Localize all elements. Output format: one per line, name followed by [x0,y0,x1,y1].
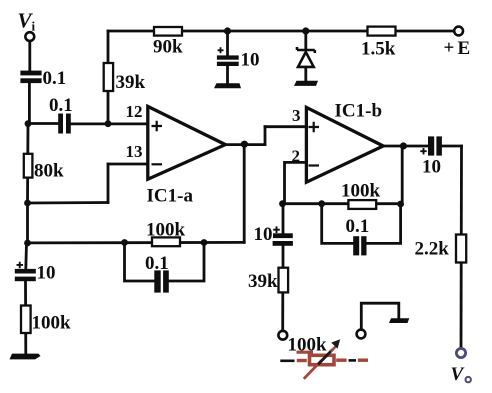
wire zener branch [304,31,307,50]
label 1.5k [361,38,396,59]
wire top cap to ground [226,66,229,83]
label 39k chain [248,271,278,292]
wire C9 to right rail [442,145,462,148]
wire step up [264,127,267,145]
label 0.1 a feedback [145,253,169,274]
label 100k a feedback [146,219,186,240]
label IC1-a [147,186,194,207]
wire left rail 80k section [26,124,29,204]
wire Vi to C1 [28,41,31,71]
svg-text:13: 13 [126,142,143,161]
label 10 top [241,49,260,70]
svg-text:i: i [32,19,36,34]
capacitor 10 output electrolytic [420,136,442,155]
potentiometer RP 100k [280,339,368,379]
wire pin 2 [285,162,307,203]
wire C7 to 39k [282,246,285,268]
wire opamp b output right [383,145,428,148]
resistor 100k b feedback body [348,200,376,209]
wire top cap branch [226,31,229,55]
capacitor 0.1 b feedback [353,236,366,255]
resistor 100k left body [21,306,31,334]
svg-text:2.2k: 2.2k [415,239,450,260]
label 39k top [116,72,146,93]
ground right mid [389,318,409,323]
svg-text:0.1: 0.1 [346,216,370,237]
label plus b [309,122,320,133]
svg-text:39k: 39k [248,271,278,292]
label 10 output [422,156,441,177]
wire input node horizontal to C2 [28,122,58,125]
capacitor 10 chain electrolytic [273,226,293,245]
wire C1 to input node [28,83,31,124]
label 10 left [37,263,56,284]
wire output down [243,145,246,243]
svg-text:10: 10 [254,224,273,245]
resistor 2.2k body [456,235,466,263]
wire pin13 vertical [107,164,110,203]
node terminal left [278,331,287,340]
svg-text:100k: 100k [146,219,186,240]
wire feedback line y242 [28,241,245,244]
svg-text:1.5k: 1.5k [361,38,396,59]
wire left rail mid [26,203,29,243]
resistor 39k top body [104,63,113,91]
label 2.2k [415,239,450,260]
node Vi terminal [25,32,34,41]
svg-text:100k: 100k [288,334,328,355]
wire 39k branch vertical [107,31,110,124]
svg-text:10: 10 [37,263,56,284]
label Vo [451,364,471,385]
svg-text:100k: 100k [341,181,381,202]
node +E terminal [454,27,463,36]
wire 39k to terminal [281,292,284,330]
ground left bottom [10,354,41,360]
svg-text:10: 10 [241,49,260,70]
diode D1 zener [297,47,315,67]
label pin 2 [292,146,301,165]
resistor 80k body [24,154,33,178]
capacitor 10 top electrolytic [217,47,239,66]
label pin 13 [126,142,143,161]
label 80k [34,160,64,181]
wire C2 to pin 12 [71,123,148,126]
label 10 chain [254,224,273,245]
svg-text:+: + [444,38,455,59]
svg-text:90k: 90k [153,36,183,57]
svg-text:10: 10 [422,156,441,177]
svg-text:IC1-b: IC1-b [335,100,383,121]
capacitor 0.1 a feedback [154,270,169,292]
svg-text:E: E [458,38,471,59]
wire pin13 to opamp [108,163,148,166]
label 0.1 input vertical [43,68,67,89]
wire 0.1a loop right [169,243,204,282]
label 100k pot [288,334,328,355]
wire 0.1b loop left [322,204,354,244]
svg-text:0.1: 0.1 [145,253,169,274]
wire left rail to C5 [24,243,28,269]
resistor 1.5k body [368,27,396,36]
wire top rail [108,30,454,33]
wire opamp a output [225,143,265,146]
label 100k b feedback [341,181,381,202]
label pin 12 [126,102,143,121]
op-amp U1b triangle [306,107,383,182]
svg-text:100k: 100k [32,313,72,334]
label minus a [152,163,163,165]
label +E [444,38,471,60]
svg-text:2: 2 [292,146,301,165]
label 0.1 b feedback [346,216,370,237]
wire 0.1a loop left [125,243,155,282]
wire pin13 horizontal lower [28,201,109,204]
svg-text:IC1-a: IC1-a [147,186,194,207]
label Vi [18,8,36,33]
wire C5 to 100k to ground [24,281,27,354]
svg-text:80k: 80k [34,160,64,181]
op-amp U1a triangle [148,106,226,179]
svg-text:3: 3 [292,106,301,125]
wire 0.1b loop right [366,204,400,244]
svg-text:0.1: 0.1 [49,95,73,116]
wire zener to ground [304,67,307,81]
wire opamp b output to node [401,146,404,204]
label 100k left [32,313,72,334]
svg-text:39k: 39k [116,72,146,93]
ground top cap [214,83,241,88]
svg-text:12: 12 [126,102,143,121]
svg-text:V: V [451,364,465,385]
node terminal right [357,330,366,339]
label IC1-b [335,100,383,121]
ground zener [294,81,318,86]
label 0.1 input horizontal [49,95,73,116]
resistor 39k chain body [279,268,289,293]
wire to pin 3 [265,125,306,128]
label minus b [309,164,320,166]
node junction dots [24,27,407,246]
wire right rail down [460,146,463,348]
resistor 100k a feedback body [152,237,180,246]
resistor 90k body [154,27,182,36]
label pin 3 [292,106,301,125]
capacitor 10 left electrolytic [15,262,36,282]
svg-text:0.1: 0.1 [43,68,67,89]
label 90k [153,36,183,57]
label plus a [152,121,163,132]
capacitor 0.1 input vertical [20,71,41,84]
wire node line y203 [281,202,401,205]
wire chain node to C7 [282,204,285,234]
node Vo terminal [456,348,465,357]
capacitor 0.1 input horizontal [58,114,71,134]
wire terminal right up to ground [361,303,399,329]
